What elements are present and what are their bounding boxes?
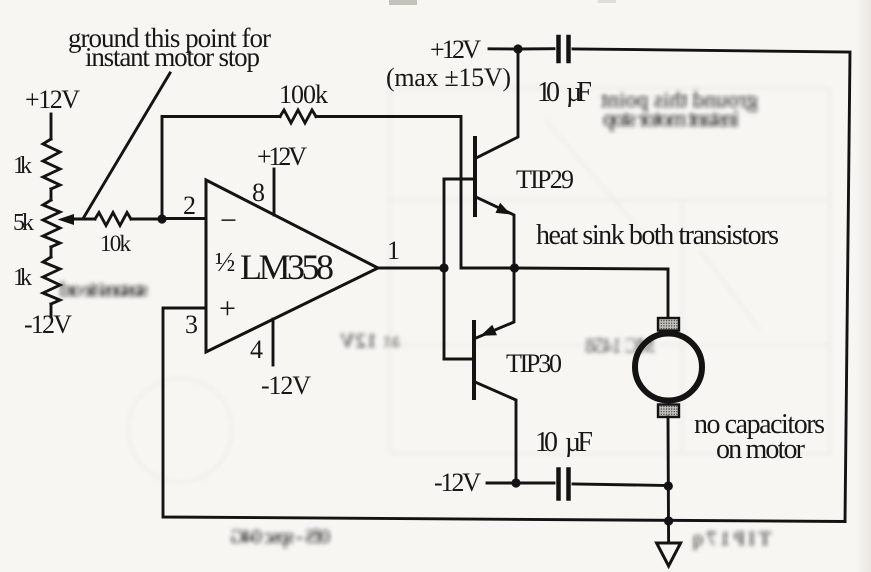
+12V rail label <box>25 85 80 114</box>
svg-text:10: 10 <box>537 77 560 108</box>
ground <box>657 543 681 566</box>
node: base drive junction <box>439 263 448 272</box>
svg-text:2: 2 <box>183 191 196 220</box>
node: cap C2 return <box>664 481 673 490</box>
svg-text:+12V: +12V <box>25 85 80 114</box>
svg-text:stastansi tie ord: stastansi tie ord <box>60 279 148 301</box>
wire <box>50 189 53 200</box>
svg-text:−: − <box>220 204 237 237</box>
capacitor C1 10uF <box>556 37 561 61</box>
wire TIP30 base lead <box>444 358 474 361</box>
wire feedback riser <box>162 117 280 220</box>
pot wiper arrow <box>58 214 75 225</box>
svg-text:+12V: +12V <box>430 35 481 64</box>
resistor R5 100k <box>280 110 316 123</box>
wire top rail to right border <box>573 49 850 522</box>
wire to node <box>131 218 162 221</box>
svg-text:1k: 1k <box>13 153 32 179</box>
annotation text <box>68 23 271 72</box>
motor M1 <box>658 318 679 331</box>
svg-text:µF: µF <box>566 77 592 108</box>
svg-text:µF: µF <box>565 427 593 458</box>
-12V supply label <box>434 468 481 497</box>
wire output to motor <box>514 268 668 318</box>
wire TIP29 base lead <box>444 178 475 181</box>
wire pin3 feedback loop <box>163 308 845 522</box>
pin 3 label <box>185 310 198 339</box>
svg-text:LM358: LM358 <box>240 247 334 287</box>
svg-text:+: + <box>219 292 236 325</box>
node: +12V rail junction <box>513 44 522 53</box>
annotation leader line <box>84 73 170 217</box>
wire motor to ground <box>667 417 670 543</box>
wire <box>50 247 53 257</box>
pin 4 lead <box>272 319 275 365</box>
resistor R4 10k <box>95 213 131 226</box>
wire feedback to output node <box>316 117 514 269</box>
wire to cap C1 <box>518 47 554 50</box>
transistor Q2 TIP30 <box>472 322 476 398</box>
wire -12V to cap C2 <box>487 482 554 485</box>
wire to -12V <box>50 304 53 317</box>
top edge scan mark <box>389 0 417 5</box>
pin 1 output label <box>387 236 400 265</box>
svg-text:instant motor stop: instant motor stop <box>85 42 260 72</box>
resistor R3 1k (bottom) <box>43 257 60 304</box>
svg-text:TIP30: TIP30 <box>506 349 562 378</box>
svg-text:+12V: +12V <box>257 142 307 171</box>
svg-text:100k: 100k <box>279 80 328 109</box>
divider top wire <box>50 114 53 139</box>
potentiometer R2 5k <box>43 200 60 247</box>
node: -12V junction <box>511 478 520 487</box>
svg-text:10k: 10k <box>100 231 132 256</box>
+12V supply label <box>386 35 511 92</box>
svg-text:on motor: on motor <box>716 434 806 465</box>
transistor Q1 TIP29 <box>473 138 477 215</box>
svg-text:-12V: -12V <box>24 310 72 339</box>
capacitor C2 10uF <box>556 470 561 499</box>
svg-text:5k: 5k <box>13 210 34 236</box>
svg-text:-12V: -12V <box>261 371 311 400</box>
wire op-amp output <box>378 267 444 270</box>
svg-text:-12V: -12V <box>434 468 481 497</box>
ghost bleed-through layer (decorative) <box>60 87 830 550</box>
pin 8 lead <box>273 169 276 215</box>
node: emitter output junction <box>510 263 519 272</box>
wire pin2 lead <box>162 217 206 220</box>
svg-text:1k: 1k <box>13 265 32 291</box>
wire cap C2 to motor node <box>573 484 668 486</box>
svg-text:½: ½ <box>215 247 235 277</box>
svg-text:0fS - spsc 04G: 0fS - spsc 04G <box>230 526 330 548</box>
node: ground junction <box>664 516 673 525</box>
svg-text:TIP29: TIP29 <box>516 165 574 194</box>
wire base bus <box>443 179 446 359</box>
wire +12V dash <box>489 47 518 50</box>
node: inverting input junction <box>157 214 166 223</box>
svg-text:4: 4 <box>250 335 263 364</box>
svg-text:instant motor stop: instant motor stop <box>603 106 739 131</box>
svg-text:1: 1 <box>387 236 400 265</box>
resistor R1 1k (top) <box>43 139 60 189</box>
svg-text:heat sink both transistors: heat sink both transistors <box>536 220 779 251</box>
svg-text:10: 10 <box>535 427 558 458</box>
svg-text:(max ±15V): (max ±15V) <box>386 63 511 92</box>
op-amp U1 1/2 LM358 <box>206 180 378 352</box>
svg-text:3: 3 <box>185 310 198 339</box>
svg-text:8: 8 <box>252 178 265 207</box>
